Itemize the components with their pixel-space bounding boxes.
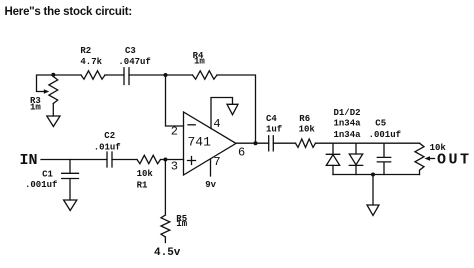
svg-text:741: 741 — [188, 135, 212, 150]
svg-text:.001uf: .001uf — [369, 130, 401, 140]
svg-text:OUT: OUT — [437, 152, 469, 169]
svg-text:C2: C2 — [104, 131, 115, 141]
svg-text:9v: 9v — [205, 180, 216, 190]
svg-text:R1: R1 — [137, 180, 148, 190]
svg-text:4.7k: 4.7k — [80, 57, 102, 67]
svg-text:D1/D2: D1/D2 — [334, 108, 361, 118]
svg-text:3: 3 — [171, 159, 178, 173]
svg-text:4: 4 — [213, 117, 220, 131]
svg-text:1m: 1m — [194, 57, 205, 67]
svg-text:1n34a: 1n34a — [334, 130, 362, 140]
svg-text:Here''s the stock circuit:: Here''s the stock circuit: — [5, 6, 132, 18]
node E junction dot — [371, 173, 375, 177]
svg-text:1m: 1m — [176, 219, 187, 229]
bottom rail — [333, 174, 420, 176]
svg-text:6: 6 — [238, 146, 245, 160]
svg-text:4.5v: 4.5v — [154, 247, 181, 259]
wire op-amp output to C4 — [236, 142, 269, 144]
resistor R4 — [193, 71, 218, 79]
svg-text:.001uf: .001uf — [25, 180, 57, 190]
wire R6 to top rail across diodes to pot — [316, 142, 420, 144]
svg-text:7: 7 — [213, 155, 220, 169]
svg-text:2: 2 — [171, 124, 178, 138]
svg-text:.01uf: .01uf — [94, 142, 121, 152]
wire C3 to node B and on to R4 — [129, 74, 193, 76]
svg-text:1m: 1m — [30, 102, 41, 112]
wire node-A to R2 — [53, 74, 81, 76]
op-amp plus sign — [188, 157, 196, 165]
ground below C1 — [64, 200, 77, 211]
wire C4 to R6 — [273, 142, 295, 144]
svg-text:.047uf: .047uf — [118, 57, 150, 67]
wire R4 to feedback drop into output node — [217, 75, 256, 143]
svg-text:C4: C4 — [266, 114, 277, 124]
wire input-node to left bend and wiper feed — [37, 75, 54, 92]
resistor R1 — [137, 155, 161, 163]
capacitor C2 — [107, 152, 112, 167]
svg-text:C5: C5 — [375, 119, 386, 129]
op-amp minus sign — [188, 124, 195, 126]
svg-text:R2: R2 — [80, 46, 91, 56]
svg-text:C1: C1 — [42, 170, 53, 180]
pot wiper arrow — [429, 158, 435, 160]
capacitor C3 — [124, 68, 129, 85]
svg-text:R6: R6 — [299, 114, 310, 124]
op-amp U1 741 triangle — [184, 112, 237, 175]
capacitor C5 — [377, 143, 390, 174]
node C junction dot — [163, 158, 167, 162]
ground at pin 4 — [227, 104, 238, 114]
resistor R2 — [81, 71, 105, 79]
wire R1 to op-amp pin 3 — [161, 159, 184, 161]
ground below diode network — [367, 205, 379, 216]
wire node C down to R5 — [164, 160, 166, 216]
potentiometer R3 — [49, 77, 58, 104]
svg-text:1n34a: 1n34a — [334, 119, 362, 129]
wire R2 to C3 — [105, 74, 124, 76]
wire IN to C2 — [41, 159, 107, 161]
ground below R3 — [47, 116, 60, 127]
resistor R5 — [161, 215, 170, 237]
wiper arrowhead into R3 — [44, 89, 50, 94]
diode D1 — [326, 143, 339, 154]
node A junction dot — [51, 73, 55, 77]
potentiometer 10k output pot — [415, 143, 424, 174]
pin 4 wire to ground — [211, 98, 233, 129]
svg-text:1uf: 1uf — [266, 125, 282, 135]
wire node B down to op-amp pin 2 — [166, 75, 184, 126]
diode D2 — [355, 143, 357, 154]
svg-text:IN: IN — [20, 152, 38, 169]
capacitor C4 — [269, 136, 274, 151]
pin 7 wire — [210, 160, 212, 177]
capacitor C1 to ground — [62, 160, 79, 201]
wire C2 to R1 — [112, 159, 137, 161]
node D output junction dot — [254, 141, 258, 145]
svg-text:10k: 10k — [137, 169, 154, 179]
svg-text:C3: C3 — [125, 46, 136, 56]
wire node E to ground — [372, 175, 374, 206]
resistor R6 — [296, 139, 316, 147]
node B junction dot — [164, 73, 168, 77]
svg-text:10k: 10k — [299, 125, 316, 135]
